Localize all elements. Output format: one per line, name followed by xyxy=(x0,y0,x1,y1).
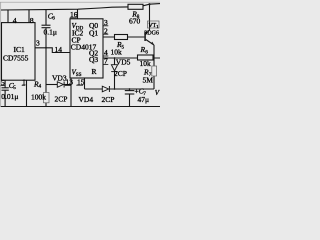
svg-text:5: 5 xyxy=(122,45,125,51)
svg-text:CD7555: CD7555 xyxy=(3,54,29,63)
svg-text:15: 15 xyxy=(77,77,85,86)
svg-text:6: 6 xyxy=(145,50,148,56)
svg-text:VD3: VD3 xyxy=(52,74,67,83)
svg-text:0.1μ: 0.1μ xyxy=(44,28,57,37)
svg-text:0.01μ: 0.01μ xyxy=(1,92,18,101)
svg-text:4: 4 xyxy=(39,84,42,90)
svg-text:VD4: VD4 xyxy=(79,95,94,104)
svg-text:100k: 100k xyxy=(31,93,46,102)
svg-text:1: 1 xyxy=(22,78,26,87)
svg-text:VD5: VD5 xyxy=(116,58,131,67)
svg-text:5: 5 xyxy=(1,78,5,87)
svg-text:3DG6: 3DG6 xyxy=(144,30,159,36)
svg-text:1: 1 xyxy=(156,24,158,29)
svg-text:8: 8 xyxy=(30,16,34,25)
svg-text:2CP: 2CP xyxy=(55,95,68,104)
svg-text:16: 16 xyxy=(70,10,78,19)
svg-text:7: 7 xyxy=(104,57,108,66)
svg-text:47μ: 47μ xyxy=(138,95,150,104)
svg-text:3: 3 xyxy=(36,39,40,48)
svg-text:10k: 10k xyxy=(111,48,123,57)
svg-text:R: R xyxy=(92,67,97,76)
svg-text:2CP: 2CP xyxy=(114,69,127,78)
svg-text:2: 2 xyxy=(104,26,108,35)
svg-text:6: 6 xyxy=(52,16,55,22)
svg-text:670: 670 xyxy=(129,17,141,26)
svg-text:Q3: Q3 xyxy=(89,55,98,64)
svg-text:4: 4 xyxy=(13,16,17,25)
svg-text:13: 13 xyxy=(66,78,74,87)
svg-text:14: 14 xyxy=(55,45,63,54)
svg-text:V: V xyxy=(155,89,160,97)
svg-text:5: 5 xyxy=(13,85,16,91)
svg-text:5M: 5M xyxy=(143,76,154,85)
svg-text:Q1: Q1 xyxy=(89,28,98,37)
svg-text:2CP: 2CP xyxy=(102,95,115,104)
